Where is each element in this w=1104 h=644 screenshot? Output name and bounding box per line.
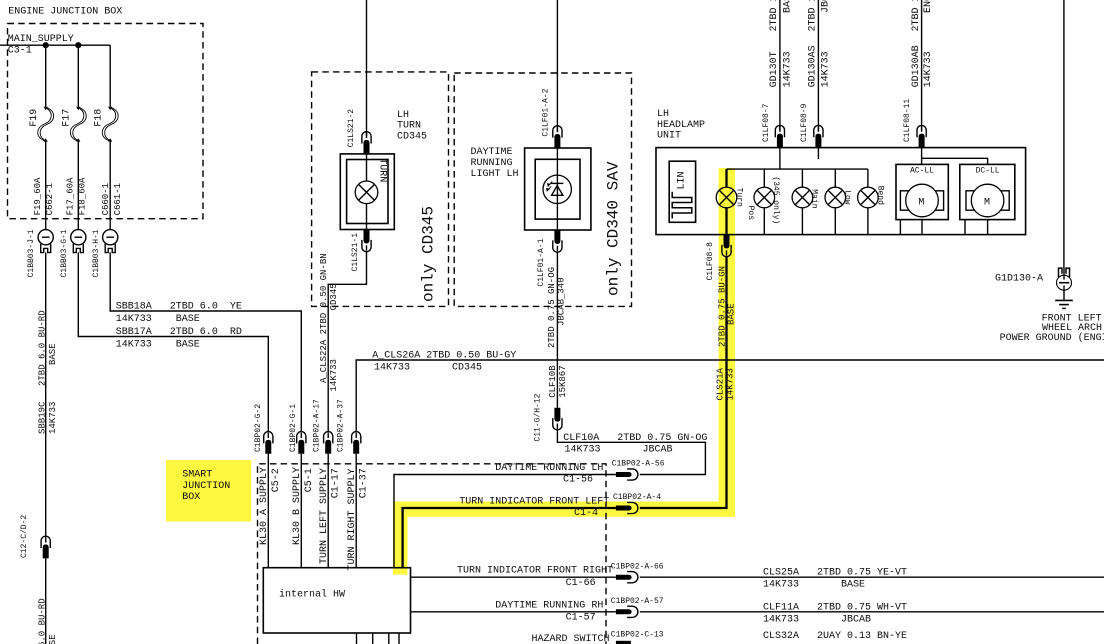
wire: turn indicator front left (highlighted): [640, 257, 727, 508]
svg-text:C1-17: C1-17: [331, 468, 342, 498]
svg-text:HAZARD SWITCH: HAZARD SWITCH: [532, 634, 610, 644]
svg-text:JBCAB_340: JBCAB_340: [556, 277, 566, 326]
wire: A_CLS22A turn lamp to SJB: [328, 252, 366, 432]
wire: turn lamp drop lower (highlighted): [725, 208, 727, 235]
svg-text:F18_60A: F18_60A: [78, 177, 88, 215]
wire: through turn lamp: [366, 154, 368, 230]
wire: C1LF08-9 stub: [817, 148, 819, 159]
svg-text:A_CLS26A 2TBD 0.50 BU-GY: A_CLS26A 2TBD 0.50 BU-GY: [372, 350, 516, 361]
wire: C1LF08-11 to motors: [921, 148, 923, 165]
wire: SBB17A run: [78, 252, 268, 431]
svg-text:ENGINE JUNCTION BOX: ENGINE JUNCTION BOX: [8, 6, 122, 17]
svg-text:Low: Low: [843, 190, 852, 205]
svg-text:C1BP02-G-1: C1BP02-G-1: [289, 404, 298, 452]
svg-text:(345 only): (345 only): [771, 176, 780, 224]
node: bus junction F17: [75, 42, 81, 48]
svg-text:AC-LL: AC-LL: [910, 167, 934, 176]
svg-text:2TBD 1.0: 2TBD 1.0: [769, 0, 780, 32]
svg-text:C660-1: C660-1: [101, 183, 111, 215]
wire: DC-LL stub right: [987, 220, 989, 235]
lamp Bend: [858, 187, 879, 208]
svg-text:DAYTIME RUNNING LH: DAYTIME RUNNING LH: [495, 463, 603, 474]
internal HW box: [263, 568, 410, 633]
pin C1BP02-A-4: [616, 502, 638, 513]
svg-text:14K733 CD345: 14K733 CD345: [374, 362, 482, 373]
svg-text:C3-1: C3-1: [8, 46, 32, 57]
wire: C1LF08-7 to lamp bus: [779, 148, 781, 170]
svg-text:C1BP02-A-4: C1BP02-A-4: [613, 493, 661, 502]
wire: turn left supply into SJB: [327, 454, 329, 568]
wire: daytime running RH row: [411, 611, 616, 613]
svg-text:C1BP02-A-57: C1BP02-A-57: [611, 597, 664, 606]
svg-text:CLF10B: CLF10B: [548, 365, 558, 398]
svg-text:2TBD 1.0: 2TBD 1.0: [808, 0, 819, 32]
svg-text:SBB18A 2TBD 6.0 YE: SBB18A 2TBD 6.0 YE: [116, 302, 242, 313]
wire: Pos lamp: [763, 169, 765, 234]
svg-text:14K733 BASE: 14K733 BASE: [763, 580, 865, 591]
daytime running light outer box: [525, 148, 591, 230]
svg-text:14K733: 14K733: [782, 51, 793, 87]
svg-text:C11-G/H-12: C11-G/H-12: [533, 393, 542, 441]
pin C1BP02-G-1: [297, 432, 306, 454]
svg-text:C1LF08-9: C1LF08-9: [800, 103, 809, 142]
wire: SBB19C vertical: [45, 252, 47, 537]
svg-text:CLS32A 2UAY 0.13 BN-YE: CLS32A 2UAY 0.13 BN-YE: [763, 631, 907, 642]
svg-text:C1BP02-C-13: C1BP02-C-13: [611, 631, 664, 640]
svg-text:C1LF08-11: C1LF08-11: [903, 99, 912, 142]
svg-text:internal HW: internal HW: [279, 589, 345, 601]
svg-text:14K733: 14K733: [820, 51, 831, 87]
svg-text:LH: LH: [657, 109, 669, 120]
wire: branch to DC-LL: [922, 158, 988, 164]
connector G1D130-A eyelet: [1057, 268, 1072, 290]
connector C11-G/H-12: [553, 408, 562, 430]
svg-text:14K733 JBCAB: 14K733 JBCAB: [565, 445, 673, 456]
svg-text:C1BB03-G-1: C1BB03-G-1: [60, 229, 69, 277]
wire: feed to daytime running light from top: [556, 0, 558, 131]
wire: ground wire to G1D130-A: [1063, 0, 1065, 268]
wire: GD130AS from top: [817, 0, 819, 131]
svg-text:C1BB03-J-1: C1BB03-J-1: [27, 229, 36, 277]
svg-text:TURN RIGHT SUPPLY: TURN RIGHT SUPPLY: [347, 468, 358, 570]
svg-text:C1BB03-H-1: C1BB03-H-1: [92, 229, 101, 277]
highlight: turn-left circuit vertical band: [719, 168, 736, 517]
wire: CLF10A run to SJB: [557, 429, 705, 475]
fuse F18: [102, 107, 118, 142]
svg-text:Pos: Pos: [746, 206, 755, 221]
highlight: turn-left circuit horizontal band: [393, 502, 735, 517]
wire: CLF10B daytime lamp down: [556, 252, 558, 407]
svg-text:C5-2: C5-2: [271, 468, 282, 492]
wire: Low lamp: [834, 169, 836, 234]
wire: turn lamp drop upper (highlighted): [725, 169, 727, 187]
wire: CLF11A to right edge: [640, 611, 1104, 613]
svg-text:CLS21A: CLS21A: [715, 367, 725, 400]
svg-text:C1LF01-A-2: C1LF01-A-2: [541, 88, 550, 136]
wire: turn indicator front right row: [411, 576, 616, 578]
pin C1BP02-A-37: [352, 432, 361, 454]
fuse F17: [70, 107, 86, 142]
svg-text:LIGHT LH: LIGHT LH: [471, 169, 519, 180]
svg-text:CD345: CD345: [329, 283, 339, 310]
pin C1LF08-9: [814, 125, 823, 147]
svg-text:TURN INDICATOR FRONT RIGHT: TURN INDICATOR FRONT RIGHT: [457, 566, 613, 577]
svg-text:14K733 BASE: 14K733 BASE: [116, 340, 200, 351]
LH turn lamp inner box: [347, 160, 388, 224]
LIN bus symbol (square wave): [672, 192, 692, 219]
svg-text:C1-56: C1-56: [563, 475, 593, 486]
svg-text:DAYTIME: DAYTIME: [471, 147, 513, 158]
wire: DC-LL stub left: [964, 220, 966, 235]
svg-text:BASE: BASE: [48, 343, 58, 365]
svg-text:C1BP02-A-37: C1BP02-A-37: [336, 399, 345, 452]
pin C1LF01-A-1: [553, 230, 562, 252]
svg-text:14K733: 14K733: [923, 51, 934, 87]
pin C1LF08-11: [917, 125, 926, 147]
svg-text:SBB19C: SBB19C: [37, 401, 47, 434]
svg-text:14K733: 14K733: [725, 368, 735, 400]
svg-text:14K733: 14K733: [48, 402, 58, 434]
wire: F18 to connector: [109, 141, 111, 230]
svg-text:C1BP02-A-17: C1BP02-A-17: [313, 399, 322, 452]
daytime running light inner box: [535, 159, 580, 219]
wire: through daytime lamp: [556, 148, 558, 230]
LH TURN CD345 dashed outline: [312, 72, 449, 307]
svg-text:C1BP02-A-56: C1BP02-A-56: [612, 459, 665, 468]
LED arrows: [548, 182, 553, 187]
wire: F17 to connector: [77, 141, 79, 230]
svg-text:C1LF01-A-1: C1LF01-A-1: [537, 238, 546, 286]
svg-text:C1LS21-2: C1LS21-2: [347, 109, 356, 148]
wire: F18 feed: [109, 45, 111, 107]
svg-text:14K733: 14K733: [329, 359, 339, 391]
highlight: turn-left circuit band to internal HW: [393, 502, 408, 575]
svg-text:BASE: BASE: [782, 0, 793, 13]
wire: KL30 B supply into SJB: [300, 454, 302, 568]
wire: feed to LH TURN from top: [366, 0, 368, 136]
wire: internal HW stub 3: [388, 633, 390, 644]
svg-text:Main: Main: [810, 189, 819, 208]
svg-text:GD130AS: GD130AS: [808, 45, 819, 87]
svg-text:C12-C/D-2: C12-C/D-2: [20, 515, 29, 558]
svg-text:KL30 B SUPPLY: KL30 B SUPPLY: [292, 467, 303, 545]
svg-text:JUNCTION: JUNCTION: [182, 481, 230, 492]
svg-text:only CD340 SAV: only CD340 SAV: [605, 161, 623, 296]
svg-text:DC-LL: DC-LL: [976, 167, 1000, 176]
wire: KL30 A supply into SJB: [267, 454, 269, 568]
pin C1BP02-A-66: [616, 572, 638, 583]
wire: internal HW stub 1: [356, 633, 358, 644]
svg-text:POWER GROUND (ENGI: POWER GROUND (ENGI: [1000, 332, 1104, 344]
motor DC-LL: [966, 184, 1009, 217]
wire: MAIN SUPPLY bus: [0, 44, 110, 46]
svg-text:C1-66: C1-66: [566, 578, 596, 589]
wire: AC-LL stub left: [899, 220, 901, 235]
LED cathode bar: [551, 182, 564, 184]
ground symbol: [1055, 300, 1073, 308]
motor AC-LL: [900, 184, 943, 217]
engine junction box dashed outline: [8, 24, 204, 219]
svg-text:UNIT: UNIT: [657, 131, 681, 142]
lamp Main: [792, 187, 813, 208]
LH headlamp unit box: [656, 148, 1026, 235]
svg-text:14K733 JBCAB: 14K733 JBCAB: [763, 614, 871, 625]
wire: turn right supply into SJB: [355, 454, 357, 568]
svg-text:KL30 A SUPPLY: KL30 A SUPPLY: [259, 467, 270, 545]
pin C1BP02-A-56: [616, 469, 638, 480]
LED triangle: [552, 186, 563, 196]
wire: F17 feed: [77, 45, 79, 107]
wire: daytime running LH to internal HW: [394, 475, 616, 568]
connector C661-1 / C1BB03-H-1: [103, 230, 118, 253]
pin C1LF08-7: [775, 125, 784, 147]
svg-text:F19_60A: F19_60A: [33, 177, 43, 215]
svg-text:F18: F18: [94, 109, 105, 127]
wire: lamp bus in headlamp: [727, 168, 868, 170]
smart junction box dashed outline: [258, 464, 607, 644]
svg-text:GD130AB: GD130AB: [911, 45, 922, 87]
svg-text:C1BP02-A-66: C1BP02-A-66: [611, 563, 664, 572]
pin C1BP02-A-57: [616, 606, 638, 617]
wire: internal HW stub 2: [372, 633, 374, 644]
svg-text:C1LF08-8: C1LF08-8: [706, 242, 715, 281]
wire: SBB19C below C12: [45, 558, 47, 644]
svg-text:C1LS21-1: C1LS21-1: [351, 233, 360, 272]
svg-text:14K733 BASE: 14K733 BASE: [116, 314, 200, 325]
svg-text:C1-37: C1-37: [359, 468, 370, 498]
svg-text:RUNNING: RUNNING: [471, 158, 513, 169]
svg-text:C1-4: C1-4: [574, 508, 598, 519]
wire: A_CLS26A turn right horizontal: [356, 360, 1104, 432]
lamp Low: [825, 187, 846, 208]
svg-text:CLS25A 2TBD 0.75 YE-VT: CLS25A 2TBD 0.75 YE-VT: [763, 568, 907, 579]
pin C1BP02-A-17: [324, 432, 333, 454]
DAYTIME RUNNING LIGHT dashed outline: [454, 73, 631, 306]
pin C1LS21-1: [362, 230, 371, 252]
wire: Bend lamp: [867, 169, 869, 234]
fuse F19: [38, 107, 54, 142]
svg-text:HEADLAMP: HEADLAMP: [657, 120, 705, 131]
svg-text:CLF11A 2TBD 0.75 WH-VT: CLF11A 2TBD 0.75 WH-VT: [763, 602, 907, 613]
wire: SBB18A run: [110, 252, 301, 431]
svg-text:A_CLS22A 2TBD 0.50 GN-BN: A_CLS22A 2TBD 0.50 GN-BN: [319, 253, 329, 383]
connector C662-1 / C1BB03-J-1: [38, 230, 53, 253]
svg-text:TURN INDICATOR FRONT LEFT: TURN INDICATOR FRONT LEFT: [459, 497, 609, 508]
svg-text:2TBD 1.0: 2TBD 1.0: [911, 0, 922, 32]
svg-text:C661-1: C661-1: [113, 183, 123, 215]
wire: AC-LL stub right: [921, 220, 923, 235]
svg-text:SBB17A 2TBD 6.0 RD: SBB17A 2TBD 6.0 RD: [116, 327, 242, 338]
svg-text:C1LF08-7: C1LF08-7: [762, 103, 771, 142]
pin C1LF01-A-2: [553, 126, 562, 148]
wire: internal HW stub 4: [398, 633, 400, 644]
svg-text:GD130T: GD130T: [769, 51, 780, 87]
svg-text:TURN: TURN: [397, 121, 421, 132]
svg-text:LIN: LIN: [677, 171, 688, 189]
pin C1LF08-8: [722, 235, 731, 257]
svg-text:Turn: Turn: [734, 188, 743, 207]
svg-text:G1D130-A: G1D130-A: [995, 274, 1043, 285]
svg-text:BASE: BASE: [726, 303, 736, 325]
DC-LL motor box: [960, 164, 1015, 219]
lamp Turn (on highlight): [716, 187, 737, 208]
pin C1BP02-C-13 (cut at bottom): [616, 641, 631, 644]
svg-text:F17_60A: F17_60A: [66, 177, 76, 215]
svg-text:15K867: 15K867: [558, 365, 568, 397]
LH turn lamp outer box: [340, 154, 394, 230]
svg-text:only CD345: only CD345: [419, 206, 437, 302]
LIN box: [669, 161, 695, 222]
highlight: smart junction box label: [166, 460, 251, 522]
lamp LH TURN: [355, 181, 378, 204]
wire: GD130AB from top: [921, 0, 923, 131]
svg-text:C5-1: C5-1: [304, 468, 315, 492]
svg-text:TURN LEFT SUPPLY: TURN LEFT SUPPLY: [319, 468, 330, 564]
svg-text:DAYTIME RUNNING RH: DAYTIME RUNNING RH: [495, 600, 603, 611]
svg-text:JBCAB: JBCAB: [820, 0, 831, 13]
connector C660-1 / C1BB03-G-1: [71, 230, 86, 253]
wire: F19 feed: [45, 45, 47, 107]
svg-text:MAIN_SUPPLY: MAIN_SUPPLY: [8, 34, 74, 45]
connector C12-C/D-2: [41, 536, 50, 558]
svg-text:C662-1: C662-1: [45, 183, 55, 215]
svg-text:F17: F17: [62, 109, 73, 127]
wire: Main lamp: [801, 169, 803, 234]
AC-LL motor box: [896, 164, 948, 219]
wire: GD130T from top: [779, 0, 781, 131]
svg-text:ENG: ENG: [923, 0, 934, 13]
wire: CLS25A to right edge: [640, 576, 1104, 578]
node: bus junction F19: [43, 42, 49, 48]
svg-text:2TBD 6.0 BU-RD: 2TBD 6.0 BU-RD: [37, 598, 47, 644]
wire: turn indicator front left into internal HW (highlighted): [403, 508, 616, 568]
svg-text:2TBD 6.0 BU-RD: 2TBD 6.0 BU-RD: [37, 310, 47, 386]
LED lamp circle: [543, 175, 571, 203]
svg-text:BOX: BOX: [182, 492, 200, 503]
wire: eyelet to ground: [1063, 286, 1065, 300]
svg-text:TURN: TURN: [377, 158, 388, 182]
LED wire through: [556, 175, 558, 203]
svg-text:CLF10A 2TBD 0.75 GN-OG: CLF10A 2TBD 0.75 GN-OG: [563, 433, 707, 444]
wire: F19 to connector: [45, 141, 47, 230]
lamp Pos: [754, 187, 775, 208]
svg-text:CD345: CD345: [397, 132, 427, 143]
pin C1LS21-2: [362, 132, 371, 154]
pin C1BP02-G-2: [264, 432, 273, 454]
svg-text:C1BP02-G-2: C1BP02-G-2: [254, 404, 263, 452]
svg-text:LH: LH: [397, 110, 409, 121]
svg-text:BASE: BASE: [48, 634, 58, 644]
svg-text:C1-57: C1-57: [566, 613, 596, 624]
svg-text:F19: F19: [29, 109, 40, 127]
svg-text:Bend: Bend: [875, 186, 884, 205]
svg-text:SMART: SMART: [182, 470, 212, 481]
